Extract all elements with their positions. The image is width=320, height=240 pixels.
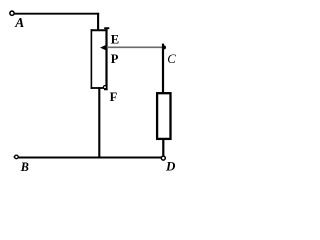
svg-text:E: E — [111, 32, 119, 46]
rheostat RP body: bottom edge — [91, 87, 107, 89]
resistor R body — [157, 93, 170, 139]
rheostat RP body: top edge — [91, 29, 108, 31]
svg-text:B: B — [20, 160, 29, 173]
terminal D — [161, 156, 165, 160]
svg-text:F: F — [110, 90, 118, 104]
rheostat RP body: left edge — [90, 29, 92, 89]
wire top rail A to corner — [14, 13, 99, 15]
wire vertical from A corner down to rheostat top — [97, 13, 99, 31]
node C junction dot — [162, 45, 166, 49]
tick left of B — [14, 156, 15, 158]
svg-text:C: C — [167, 52, 176, 66]
wire bottom rail B to D — [18, 157, 161, 159]
terminal tick E — [104, 27, 109, 29]
terminal A — [10, 11, 14, 15]
wiper wire P to C (gray) — [107, 46, 163, 48]
wire resistor R down to terminal D — [162, 138, 164, 156]
tick under F — [104, 89, 108, 91]
svg-text:A: A — [14, 15, 24, 30]
terminal B — [15, 155, 19, 159]
terminal ring F — [103, 86, 106, 89]
svg-text:D: D — [165, 159, 176, 174]
wiper arrow P — [100, 44, 107, 51]
wire C down to resistor R — [162, 44, 164, 93]
svg-text:P: P — [111, 52, 119, 66]
wire rheostat bottom down to bottom rail — [98, 87, 100, 158]
rheostat RP body: right edge — [105, 29, 107, 89]
